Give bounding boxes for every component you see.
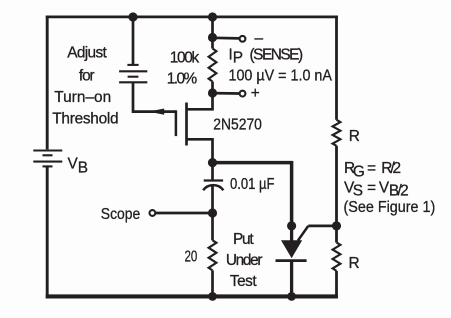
transistor Q1 source lead bbox=[187, 139, 213, 162]
resistor R2 20 zigzag bbox=[209, 240, 217, 270]
label Ip SENSE bbox=[229, 46, 304, 66]
wire right column middle bbox=[335, 146, 338, 243]
wire PUT cathode to bus bbox=[290, 261, 293, 297]
svg-text:R/2: R/2 bbox=[381, 160, 401, 177]
capacitor C1 curved plate bbox=[203, 185, 223, 190]
svg-text:100k: 100k bbox=[170, 50, 200, 67]
wire bottom bus bbox=[46, 294, 338, 298]
svg-text:for: for bbox=[79, 67, 95, 84]
capacitor C1 top plate bbox=[204, 179, 223, 181]
wire main column from rail bbox=[211, 17, 214, 49]
svg-text:Turn–on: Turn–on bbox=[54, 89, 111, 106]
node source cap anode bbox=[208, 158, 217, 167]
wire bias battery branch bbox=[132, 17, 135, 65]
PUT D1 cathode bar bbox=[276, 259, 307, 262]
svg-text:S: S bbox=[353, 182, 363, 199]
svg-text:2N5270: 2N5270 bbox=[213, 117, 262, 134]
svg-text:(See Figure 1): (See Figure 1) bbox=[344, 199, 436, 216]
label VB bbox=[68, 155, 89, 176]
transistor Q1 drain lead bbox=[187, 93, 213, 109]
terminal plus circle bbox=[240, 91, 246, 97]
svg-text:0.01 µF: 0.01 µF bbox=[230, 176, 275, 193]
wire scope node to 20 resistor bbox=[211, 213, 214, 240]
label 100k 1.0% bbox=[167, 50, 200, 88]
label RG = R/2 bbox=[344, 160, 401, 180]
wire PUT anode node to triangle bbox=[290, 226, 293, 241]
svg-text:Put: Put bbox=[233, 231, 254, 248]
svg-text:=: = bbox=[367, 160, 376, 177]
wire scope lead bbox=[156, 212, 213, 215]
svg-text:100 µV = 1.0 nA: 100 µV = 1.0 nA bbox=[229, 67, 333, 84]
resistor R4 lower R zigzag bbox=[333, 243, 341, 271]
svg-text:(SENSE): (SENSE) bbox=[250, 46, 304, 63]
resistor R3 upper R zigzag bbox=[333, 120, 341, 146]
node PUT anode gate pickup bbox=[287, 221, 296, 230]
label Put Under Test bbox=[226, 231, 263, 290]
svg-text:=: = bbox=[367, 179, 376, 196]
svg-text:G: G bbox=[353, 163, 365, 180]
node scope bbox=[208, 208, 217, 217]
wire capacitor to scope node bbox=[211, 185, 214, 213]
svg-text:20: 20 bbox=[185, 248, 198, 265]
svg-text:Scope: Scope bbox=[101, 206, 140, 223]
node divider gate bbox=[332, 221, 341, 230]
svg-text:–: – bbox=[255, 30, 264, 47]
transistor Q1 gate bar bbox=[175, 110, 178, 136]
wire source node to capacitor bbox=[211, 163, 214, 181]
svg-text:Threshold: Threshold bbox=[52, 110, 118, 127]
node rail bias junction bbox=[128, 12, 137, 21]
node bus PUT cathode bbox=[287, 292, 296, 301]
wire right column top bbox=[335, 16, 338, 120]
label Adjust for Turn-on Threshold bbox=[52, 44, 118, 127]
node rail main junction bbox=[208, 12, 217, 21]
label VS = VB/2 bbox=[344, 179, 409, 199]
wire top rail bbox=[46, 16, 338, 19]
wire thick source to PUT anode bbox=[213, 163, 292, 222]
battery VB bbox=[33, 151, 62, 167]
svg-text:R: R bbox=[349, 255, 360, 272]
node bus 20 resistor bbox=[208, 292, 217, 301]
wire bias battery to gate bbox=[133, 82, 176, 111]
wire right column bottom bbox=[335, 271, 338, 299]
wire 100k bottom to drain node bbox=[211, 82, 214, 94]
battery adjust bias bbox=[119, 65, 147, 82]
wire PUT gate to divider node bbox=[308, 225, 336, 228]
node plus sense drain bbox=[208, 88, 217, 97]
svg-text:R: R bbox=[349, 128, 360, 145]
transistor Q1 2N5270 gate arrow bbox=[149, 109, 165, 115]
svg-text:P: P bbox=[233, 49, 243, 66]
svg-text:Adjust: Adjust bbox=[67, 44, 107, 61]
transistor Q1 channel bar bbox=[185, 103, 188, 146]
svg-text:1.0%: 1.0% bbox=[167, 70, 198, 87]
svg-text:Under: Under bbox=[226, 252, 263, 269]
terminal scope circle bbox=[150, 210, 156, 216]
svg-text:Test: Test bbox=[230, 273, 257, 290]
svg-text:B: B bbox=[78, 160, 88, 177]
wire minus sense lead bbox=[213, 36, 240, 39]
terminal minus circle bbox=[240, 36, 246, 42]
wire 20 resistor to bus bbox=[211, 270, 214, 296]
node minus sense bbox=[208, 33, 217, 42]
svg-text:+: + bbox=[251, 85, 260, 102]
wire left side top bbox=[46, 16, 49, 150]
svg-text:B/2: B/2 bbox=[389, 183, 409, 200]
wire PUT gate diagonal bbox=[298, 226, 308, 241]
PUT D1 triangle bbox=[281, 240, 302, 258]
resistor R1 100k zigzag bbox=[209, 49, 217, 82]
wire left side bottom bbox=[46, 166, 49, 298]
wire plus sense lead bbox=[213, 92, 240, 95]
